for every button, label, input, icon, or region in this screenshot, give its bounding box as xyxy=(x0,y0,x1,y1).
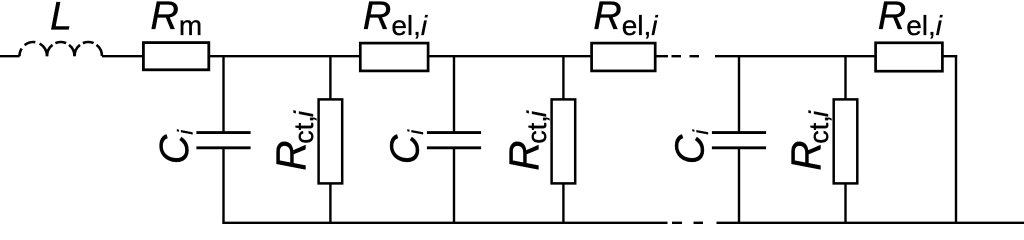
label R_ct,i #1 (rotated) xyxy=(268,110,319,171)
wire top rail: Rel2 to dashed break xyxy=(655,55,668,57)
wire bottom rail right section xyxy=(717,222,1024,224)
label C_i #1 (rotated) xyxy=(151,129,198,165)
label R_ct,i #2 (rotated) xyxy=(501,110,552,171)
wire left input stub xyxy=(0,55,20,57)
capacitor C_i #1 branch wires xyxy=(222,56,224,131)
resistor R_el,i #2 (box) xyxy=(592,43,656,71)
capacitor C_i #1 plates xyxy=(196,131,250,134)
inductor L (dashed arcs) xyxy=(20,42,103,56)
wire right edge vertical xyxy=(955,55,957,223)
capacitor C_i #2 branch wires xyxy=(453,56,455,131)
capacitor C_i #2 plates xyxy=(427,131,481,134)
wire inductor to Rm xyxy=(102,55,143,57)
wire top rail: Rel3 to right corner xyxy=(943,55,958,57)
label C_i #2 (rotated) xyxy=(381,129,428,165)
capacitor C_i #3 branch wires xyxy=(738,56,740,131)
resistor R_ct,i #1 branch wires xyxy=(329,56,331,99)
label C_i #3 (rotated) xyxy=(666,129,713,165)
svg-text:L: L xyxy=(50,0,72,38)
wire top rail: Rel1 to Rel2 xyxy=(428,55,591,57)
capacitor C_i #3 plates xyxy=(712,131,766,134)
resistor R_m (box) xyxy=(143,43,208,70)
resistor R_ct,i #3 (box) xyxy=(834,99,858,183)
label R_ct,i #3 (rotated) xyxy=(783,110,834,171)
wire bottom rail left section xyxy=(222,222,667,224)
resistor R_ct,i #2 (box) xyxy=(552,99,576,183)
resistor R_el,i #3 (box) xyxy=(876,43,943,71)
resistor R_ct,i #3 branch wires xyxy=(844,56,846,99)
wire top rail: break to Rel3 xyxy=(715,55,876,57)
resistor R_el,i #1 (box) xyxy=(360,43,428,71)
resistor R_ct,i #1 (box) xyxy=(319,99,343,183)
wire top rail dashed break xyxy=(672,55,682,57)
wire bottom rail dashed break xyxy=(672,222,682,224)
wire top rail: Rm to Rel1 xyxy=(210,55,360,57)
resistor R_ct,i #2 branch wires xyxy=(562,56,564,99)
